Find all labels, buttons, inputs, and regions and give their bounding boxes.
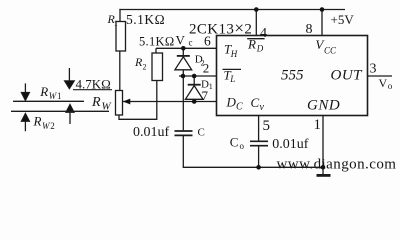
node D2 bottom junction [181,74,186,79]
resistor R2 [152,53,163,81]
svg-text:GND: GND [307,98,340,114]
wire pin2 line [179,75,217,77]
op-amp U1 555 box [217,36,368,116]
svg-text:1: 1 [314,117,322,133]
node D1 top junction [192,74,197,79]
svg-text:o: o [240,141,245,151]
label RD with overline [247,38,264,40]
node pin8 junction [320,7,325,12]
svg-text:+5V: +5V [331,12,355,27]
arrow 4.7K down [64,68,74,89]
svg-text:2: 2 [50,121,55,131]
svg-text:R: R [33,114,42,129]
svg-text:C: C [251,95,260,110]
wiper arrow [123,99,131,105]
svg-text:5.1KΩ: 5.1KΩ [126,12,165,27]
wire D2 top lead [182,48,184,56]
wire cap C bottom lead [182,136,184,168]
diode D2 [175,56,192,70]
svg-text:v: v [260,102,265,113]
diode D1 [185,85,203,100]
arrow RW1 down [21,83,29,100]
svg-text:2CK13×2: 2CK13×2 [189,19,252,38]
label 4.7K underline [73,89,112,91]
wire dimension line2 [11,110,109,112]
svg-text:C: C [236,102,243,113]
svg-text:555: 555 [281,68,304,84]
svg-text:4.7KΩ: 4.7KΩ [76,77,111,92]
svg-text:R: R [39,84,48,99]
wire node Vc pin6 [156,47,217,49]
wire D1 bottom lead [193,99,195,101]
node pin4 junction [254,7,259,12]
svg-text:V: V [176,32,186,47]
svg-text:C: C [230,135,239,150]
svg-text:2: 2 [203,61,210,76]
svg-text:0.01uf: 0.01uf [272,137,309,152]
wire R2 top lead [155,48,157,53]
wire pin4 lead [255,10,257,36]
arrow RW up (right) [66,104,74,124]
wire pin5 upper [258,116,260,142]
svg-text:6: 6 [204,34,211,49]
node Co bottom junction [256,165,261,170]
svg-text:C: C [198,127,205,139]
svg-text:V: V [379,76,388,90]
wire bottom rail [183,166,323,168]
svg-text:D: D [256,44,264,54]
svg-text:D: D [226,95,237,110]
svg-text:L: L [229,74,235,84]
svg-text:R: R [247,37,256,52]
wire D1 top lead [193,76,195,85]
svg-text:W: W [102,101,112,113]
capacitor Co [250,141,268,145]
svg-text:OUT: OUT [331,68,364,84]
wire top rail [119,9,345,11]
svg-text:R: R [91,95,101,110]
svg-text:3: 3 [370,62,377,77]
wire pin8 lead [321,10,323,36]
svg-text:5.1KΩ: 5.1KΩ [139,34,174,48]
svg-text:c: c [189,38,193,48]
svg-text:0.01uf: 0.01uf [133,125,170,140]
capacitor C [175,131,193,135]
wire pin1 ground lead [322,116,324,175]
arrow RW2 up [21,113,29,131]
svg-text:2: 2 [143,63,147,72]
node pin1 junction [321,165,326,170]
svg-text:1: 1 [57,91,62,101]
svg-text:8: 8 [306,22,313,37]
wire D2 bottom to cap C [182,70,184,131]
svg-text:o: o [388,81,393,91]
wire dimension line1 [13,100,84,102]
resistor R1 [116,22,126,52]
label TL with overline [223,68,242,70]
wire pin5 lower [258,146,260,168]
svg-text:1: 1 [209,82,213,91]
wire R1 to RW [119,51,121,91]
svg-text:1: 1 [114,19,118,28]
svg-text:www.diangon.com: www.diangon.com [277,157,397,173]
svg-text:7: 7 [202,88,209,103]
svg-text:H: H [230,49,238,59]
node D2 top junction [181,46,186,51]
wire pin3 output [368,75,393,77]
wire DC wiper line [123,101,217,103]
ground [317,174,331,177]
svg-text:5: 5 [263,118,271,134]
wire R2 bottom lead [156,81,158,120]
node D1 bottom junction [192,99,197,104]
wire R1 top lead [119,9,121,22]
potentiometer RW [116,91,123,116]
wire RW bottom L [119,115,157,119]
svg-text:CC: CC [324,45,337,55]
